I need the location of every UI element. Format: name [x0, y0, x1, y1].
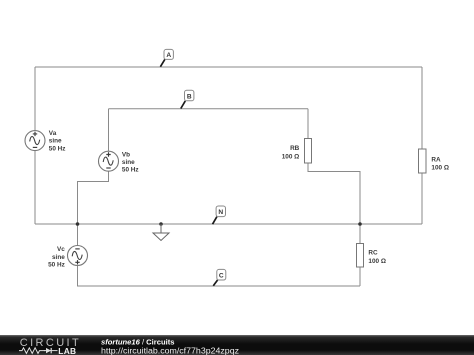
- svg-text:Vb: Vb: [122, 151, 130, 158]
- wire Vc bottom / C rail: [78, 266, 361, 287]
- wire Va bottom vertical: [34, 151, 36, 224]
- svg-text:LAB: LAB: [58, 346, 76, 355]
- wire RA bottom vertical: [421, 173, 423, 224]
- svg-text:RB: RB: [290, 145, 300, 152]
- wire RA top vertical: [421, 67, 423, 149]
- logo CircuitLab: [19, 337, 80, 355]
- junction Vb/Vc at N: [76, 222, 80, 226]
- svg-text:http://circuitlab.com/cf77h3p2: http://circuitlab.com/cf77h3p24zpqz: [101, 346, 239, 355]
- wire RB top vertical: [307, 109, 309, 139]
- wire Vb top vertical: [108, 109, 110, 151]
- wire Va top vertical: [34, 67, 36, 131]
- junction RB/RC at N: [358, 222, 362, 226]
- node B flag: [181, 90, 194, 108]
- voltage source Vc: [68, 246, 88, 266]
- svg-text:Va: Va: [49, 130, 57, 137]
- svg-text:Vc: Vc: [57, 246, 65, 253]
- voltage source Vb: [99, 151, 119, 171]
- resistor RC: [357, 244, 364, 268]
- svg-text:sine: sine: [52, 254, 65, 261]
- svg-text:sine: sine: [49, 138, 62, 145]
- wire RB bottom to RC top: [308, 163, 360, 244]
- wire B horizontal: [109, 108, 309, 110]
- wire N horizontal (neutral rail): [35, 223, 422, 225]
- node N flag: [213, 206, 226, 224]
- svg-text:N: N: [218, 209, 223, 216]
- svg-text:50 Hz: 50 Hz: [122, 167, 139, 174]
- wire A horizontal (node A top rail): [35, 66, 422, 68]
- resistor RA: [419, 149, 427, 173]
- svg-text:50 Hz: 50 Hz: [48, 261, 65, 268]
- resistor RB: [305, 139, 312, 164]
- svg-text:100 Ω: 100 Ω: [431, 164, 449, 171]
- svg-text:C: C: [219, 273, 224, 280]
- svg-text:sine: sine: [122, 159, 135, 166]
- node C flag: [213, 269, 226, 285]
- footer bar: [0, 335, 474, 355]
- svg-text:A: A: [166, 52, 171, 59]
- svg-text:50 Hz: 50 Hz: [49, 145, 66, 152]
- svg-text:100 Ω: 100 Ω: [368, 258, 386, 265]
- wire RC bottom vertical: [359, 267, 361, 286]
- junction ground at N: [159, 222, 163, 226]
- voltage source Va: [25, 131, 45, 151]
- ground: [153, 224, 169, 241]
- node A flag: [160, 49, 173, 66]
- svg-text:B: B: [187, 93, 192, 100]
- svg-text:100 Ω: 100 Ω: [282, 154, 300, 161]
- svg-text:RC: RC: [368, 250, 378, 257]
- svg-text:RA: RA: [431, 157, 441, 164]
- wire Vb bottom to node N: [78, 171, 109, 245]
- svg-text:sfortune16 / Circuits: sfortune16 / Circuits: [101, 337, 175, 346]
